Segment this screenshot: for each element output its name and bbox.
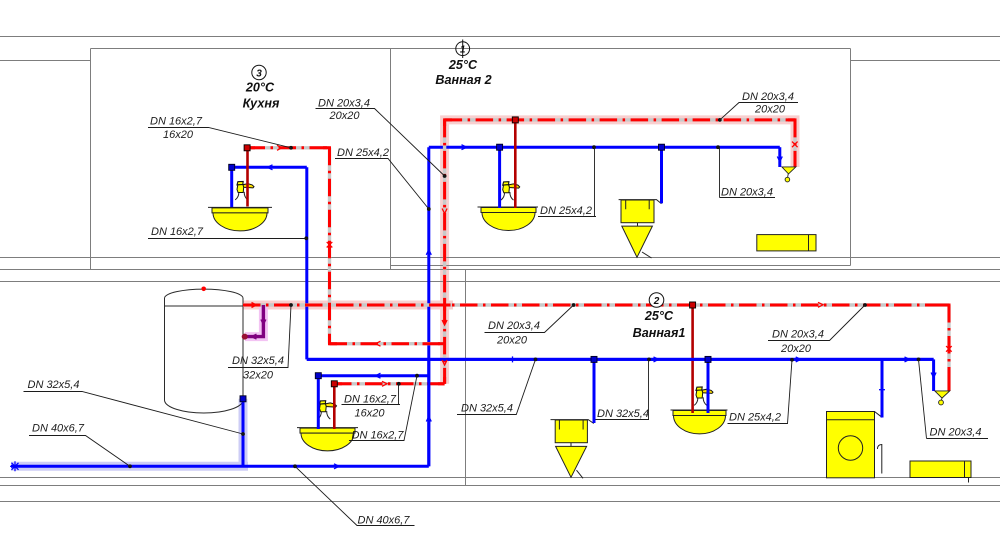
red x fittings — [327, 142, 952, 352]
svg-text:32x20: 32x20 — [243, 370, 274, 382]
svg-text:DN 20x3,4: DN 20x3,4 — [772, 329, 824, 341]
bath1 sink cold drop — [707, 359, 710, 413]
svg-text:16x20: 16x20 — [163, 129, 194, 141]
bath1 toilet drop — [593, 359, 596, 423]
bath1 toilet WC1 — [551, 420, 594, 479]
hot main gray core — [243, 305, 949, 391]
wall kitchen left — [90, 49, 92, 270]
hot drops dark red — [248, 120, 693, 429]
bath1 sink S1 — [671, 410, 728, 434]
lower sink cold drop — [317, 376, 320, 429]
tank air vent dot — [201, 287, 206, 292]
svg-text:20x20: 20x20 — [329, 110, 361, 122]
leader DN16 kitchen top — [148, 128, 291, 148]
bath2 hot manifold — [445, 118, 795, 121]
label anchor dots — [128, 118, 920, 468]
leader DN40 bottom — [295, 466, 415, 525]
leader DN25 kitchen riser — [335, 159, 429, 210]
pipe arrows — [252, 145, 824, 386]
mid floor line 2 — [0, 269, 1000, 271]
hot riser — [443, 120, 446, 384]
lower sink hot line — [334, 382, 445, 385]
bath2 manifold end drop — [778, 147, 781, 167]
cold tank feed DN32 — [242, 399, 245, 467]
svg-text:1: 1 — [460, 45, 466, 56]
svg-text:25°C: 25°C — [448, 58, 478, 72]
svg-text:Ванная 2: Ванная 2 — [435, 73, 491, 87]
svg-text:DN 20x3,4: DN 20x3,4 — [930, 427, 982, 439]
pipe size labels — [28, 91, 982, 527]
tank feed pipe purple — [245, 305, 263, 337]
bath1 mixer tap — [935, 391, 950, 405]
svg-text:DN 25x4,2: DN 25x4,2 — [540, 205, 592, 217]
kitchen sink hot drop — [246, 148, 249, 207]
svg-text:DN 25x4,2: DN 25x4,2 — [337, 147, 389, 159]
washing machine — [827, 412, 883, 478]
insulation halo hot main — [243, 120, 795, 384]
leader DN20 bath1 left — [485, 305, 574, 333]
leader DN32 far left — [24, 392, 244, 435]
bath2 sink hot drop — [514, 120, 517, 208]
svg-text:DN 32x5,4: DN 32x5,4 — [461, 403, 513, 415]
hot tee squares dark red — [244, 117, 695, 387]
svg-text:Ванная1: Ванная1 — [633, 326, 686, 340]
bath2 bathtub — [757, 235, 816, 251]
wall kitchen/bath2 divider — [390, 49, 392, 270]
bath2 toilet WC2 — [619, 200, 662, 258]
cold branch lower sink — [318, 374, 429, 377]
leader lines — [24, 103, 989, 526]
hot main from tank — [243, 304, 949, 307]
svg-text:16x20: 16x20 — [355, 408, 386, 420]
washing machine drop — [881, 359, 884, 417]
water heater tank — [165, 289, 244, 413]
leader DN16 kitchen lower — [148, 238, 307, 240]
leader DN20 bath1 right — [768, 305, 865, 341]
kitchen faucet — [235, 182, 254, 200]
purple arrows — [252, 320, 266, 340]
leader DN20 bath2 — [720, 147, 776, 197]
kitchen sink K1 — [208, 207, 272, 231]
kitchen hot connect — [330, 342, 445, 345]
svg-text:20x20: 20x20 — [754, 104, 786, 116]
svg-text:DN 20x3,4: DN 20x3,4 — [488, 320, 540, 332]
red solid corner caps — [243, 120, 949, 391]
bottom floor line 1 — [0, 477, 1000, 479]
ceiling line left — [0, 60, 90, 62]
svg-text:DN 16x2,7: DN 16x2,7 — [352, 430, 405, 442]
leader DN25 bath1 — [728, 360, 793, 424]
lower sink faucet — [318, 401, 337, 419]
mid floor line 1 — [0, 257, 1000, 259]
bath2 cold manifold — [429, 146, 780, 149]
ceiling line right — [851, 60, 1000, 62]
insulation halo tank feed purple — [245, 305, 263, 337]
bath1 cold manifold — [307, 358, 934, 361]
mid floor line 3 — [0, 281, 1000, 283]
svg-text:DN 20x3,4: DN 20x3,4 — [742, 91, 794, 103]
leader DN32 tank — [228, 305, 291, 368]
cold riser — [427, 147, 430, 466]
leader DN20 bath1 end — [919, 359, 989, 438]
floor slab line top — [0, 36, 1000, 38]
leader DN20 kitchen riser — [316, 109, 445, 177]
riser mark 1 — [456, 40, 470, 59]
bath2 mixer tap — [782, 167, 796, 182]
lower sink hot drop — [333, 384, 336, 429]
bath1 sink hot drop — [691, 305, 694, 413]
svg-text:DN 40x6,7: DN 40x6,7 — [32, 423, 85, 435]
room box kitchen and bath2 top — [91, 48, 851, 50]
svg-text:3: 3 — [256, 68, 262, 79]
svg-text:DN 20x3,4: DN 20x3,4 — [318, 98, 370, 110]
bath2 faucet — [501, 182, 520, 200]
svg-text:DN 32x5,4: DN 32x5,4 — [232, 355, 284, 367]
riser mark 2 — [649, 293, 664, 308]
leader DN32 bath1 manifold — [457, 359, 536, 414]
svg-text:20°C: 20°C — [245, 81, 275, 95]
bath2 hot end drop — [794, 120, 797, 167]
svg-text:20x20: 20x20 — [780, 343, 812, 355]
cold tee squares blue — [229, 144, 711, 402]
bath2 sink S2 — [478, 207, 539, 231]
svg-text:DN 16x2,7: DN 16x2,7 — [344, 394, 397, 406]
riser mark 3 — [252, 65, 266, 79]
svg-text:DN 20x3,4: DN 20x3,4 — [721, 187, 773, 199]
svg-text:25°C: 25°C — [644, 309, 674, 323]
leader DN16 lower sink hot — [342, 384, 401, 405]
bath1 faucet — [694, 387, 713, 405]
svg-text:DN 40x6,7: DN 40x6,7 — [358, 515, 411, 527]
bottom floor line 2 — [0, 485, 1000, 487]
kitchen hot line — [248, 146, 330, 149]
svg-text:DN 16x2,7: DN 16x2,7 — [150, 116, 203, 128]
water source asterisk — [10, 461, 20, 471]
leader DN40 far left — [29, 436, 130, 467]
bottom floor line 3 — [0, 501, 1000, 503]
svg-text:Кухня: Кухня — [243, 97, 280, 111]
svg-text:20x20: 20x20 — [496, 335, 528, 347]
cold main DN40 — [11, 465, 429, 468]
bath2 box bottom — [391, 265, 851, 267]
hot main end drop — [948, 305, 951, 391]
bath2 toilet drop — [660, 147, 663, 203]
svg-text:DN 32x5,4: DN 32x5,4 — [28, 379, 80, 391]
svg-text:DN 25x4,2: DN 25x4,2 — [729, 411, 781, 423]
lower sink S3 near tank — [297, 428, 358, 451]
leader DN32 bath1 toilet — [596, 359, 650, 419]
wall bath2 right — [850, 49, 852, 266]
purple pipe end dot — [242, 334, 248, 340]
svg-text:2: 2 — [653, 296, 660, 307]
cold manifold overdraw for z-order — [307, 359, 934, 466]
wall bath1 left — [465, 270, 467, 486]
kitchen cold riser — [232, 167, 307, 359]
leader DN16 lower sink cold — [349, 376, 417, 441]
kitchen sink cold drop — [230, 167, 233, 207]
insulation halo cold main — [11, 399, 248, 467]
leader DN25 bath2 — [538, 147, 596, 216]
bath1 manifold end drop — [932, 359, 935, 391]
bath2 sink cold drop — [498, 147, 501, 208]
svg-text:DN 32x5,4: DN 32x5,4 — [597, 408, 649, 420]
svg-text:DN 16x2,7: DN 16x2,7 — [151, 226, 204, 238]
kitchen hot riser — [328, 148, 331, 344]
bath1 bathtub — [910, 461, 971, 483]
blue arrows — [268, 145, 937, 469]
leader DN20 top right — [720, 103, 798, 120]
